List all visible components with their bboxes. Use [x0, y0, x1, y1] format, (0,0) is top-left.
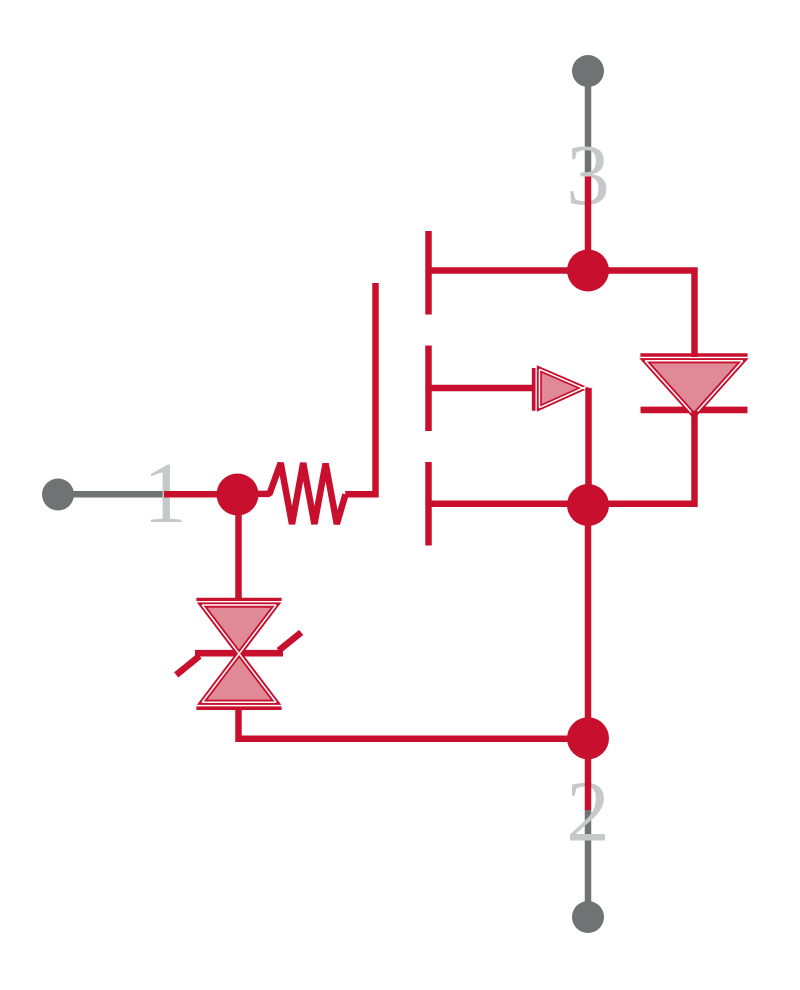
- terminal pin 1 lead: [58, 491, 164, 498]
- junction node G: [217, 474, 259, 516]
- TVS zener Z1 (bidirectional): [176, 599, 301, 708]
- terminal pin 2 lead: [585, 810, 592, 917]
- body diode D1: [639, 355, 749, 419]
- wire Q1 body to arrow: [429, 385, 534, 392]
- wire node 2 to pin 2: [585, 738, 592, 810]
- wire Q1 drain to node D: [429, 267, 589, 274]
- wire node S down to node 2: [585, 505, 592, 739]
- terminal pin 1 dot: [42, 479, 74, 511]
- wire Q1 source to node S: [429, 500, 589, 507]
- wire TVS Z1 to node 2: [239, 707, 589, 739]
- wire pin 3 to node D: [585, 177, 592, 273]
- wire node D to body diode: [588, 271, 695, 358]
- junction node D: [567, 250, 609, 292]
- wire resistor to gate / Q1 gate electrode: [345, 283, 375, 494]
- junction node 2: [567, 717, 609, 759]
- wire arrow to node S: [585, 388, 592, 505]
- resistor R1: [256, 463, 346, 524]
- transistor Q1 channel segment (body): [425, 346, 432, 432]
- wire node G down to TVS Z1: [235, 495, 242, 602]
- transistor Q1 channel segment (source side): [425, 462, 432, 546]
- transistor Q1 body arrow: [534, 365, 590, 412]
- terminal pin 2 dot: [572, 901, 604, 933]
- terminal pin 3 dot: [572, 55, 604, 87]
- terminal pin 3 lead: [585, 71, 592, 177]
- wire body diode to node S: [588, 411, 695, 504]
- transistor Q1 channel segment (drain side): [425, 231, 432, 315]
- wire pin 1 to node G: [164, 491, 237, 498]
- junction node S: [567, 484, 609, 526]
